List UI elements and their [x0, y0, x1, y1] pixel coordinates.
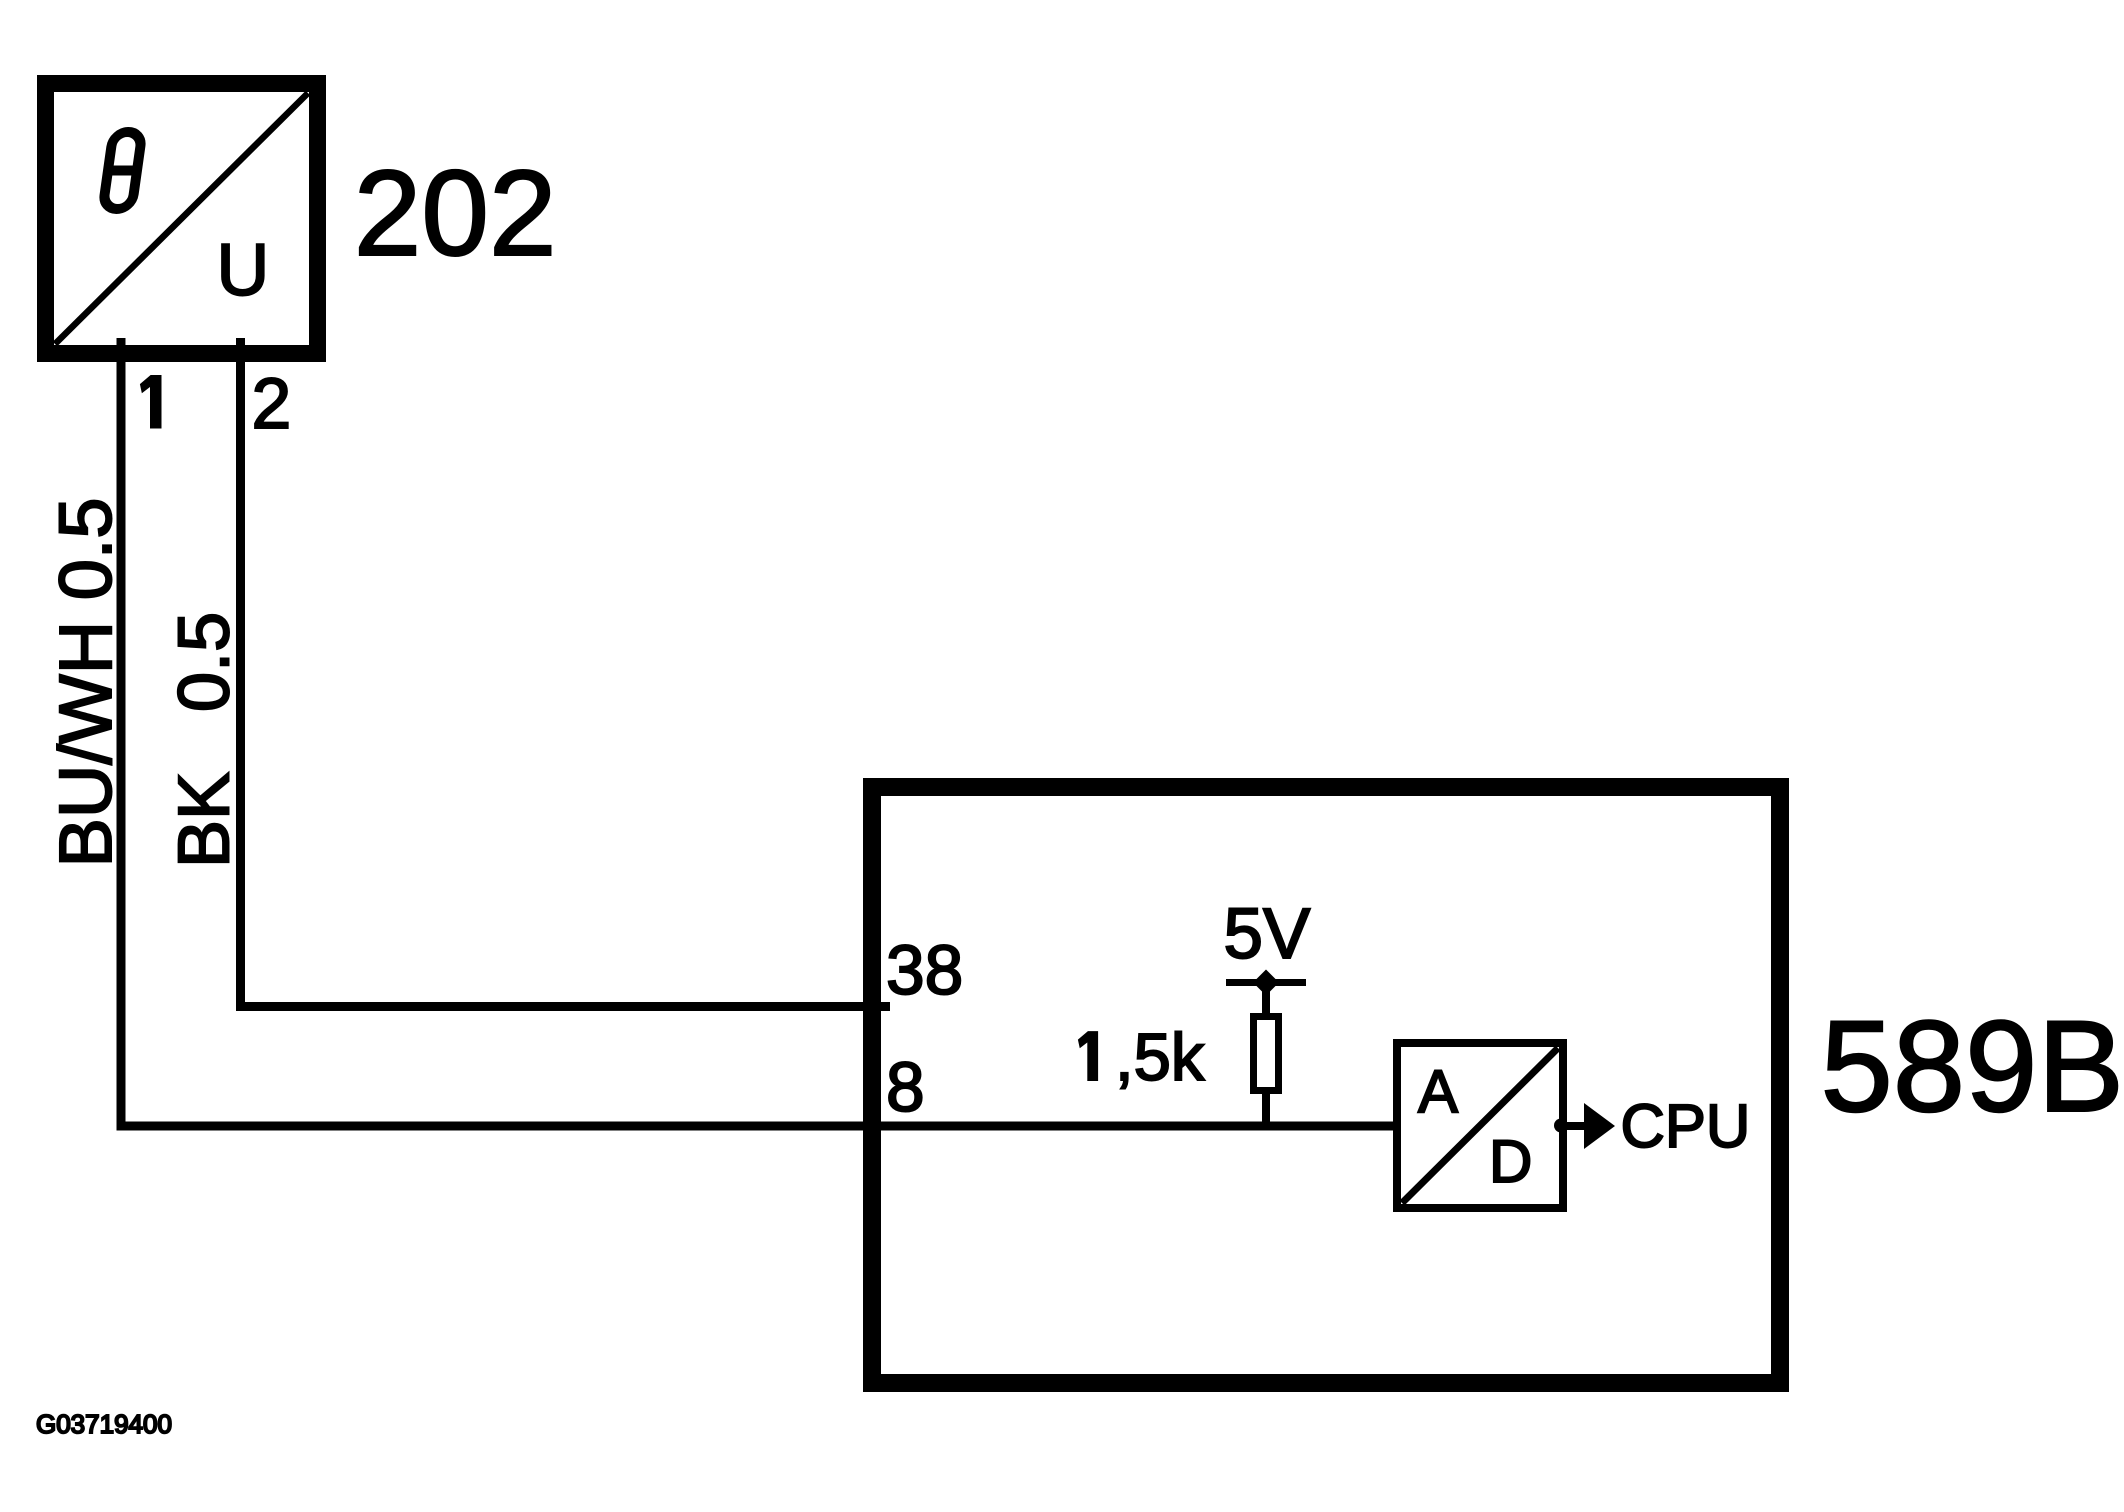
junction dot at A/D output — [1554, 1119, 1568, 1133]
svg-text:8: 8 — [886, 1048, 925, 1126]
5V supply diamond — [1253, 970, 1279, 996]
wire BK from pin 2 to pin 38 — [241, 338, 891, 1007]
connector box 202 (temperature sensor symbol) — [46, 84, 318, 354]
svg-text:BU/WH 0.5: BU/WH 0.5 — [44, 497, 127, 867]
svg-text:,5k: ,5k — [1115, 1020, 1205, 1095]
svg-text:G03719400: G03719400 — [36, 1409, 172, 1439]
svg-text:2: 2 — [252, 364, 292, 444]
ECU box 589B — [872, 787, 1780, 1383]
svg-text:38: 38 — [886, 931, 963, 1009]
svg-text:202: 202 — [354, 145, 557, 281]
arrow head — [1584, 1103, 1615, 1149]
wire BU/WH from pin 1 to pin 8 — [121, 338, 1397, 1126]
pin 1 label — [141, 376, 161, 428]
diagonal of box 202 — [55, 93, 308, 344]
5V supply bar — [1226, 979, 1306, 986]
resistor 1,5k body — [1254, 1017, 1279, 1091]
svg-text:5V: 5V — [1224, 895, 1311, 974]
resistor lower lead — [1262, 1090, 1270, 1126]
svg-text:A: A — [1418, 1058, 1458, 1125]
svg-text:BK 0.5: BK 0.5 — [165, 612, 245, 868]
svg-text:U: U — [217, 230, 270, 311]
svg-text:D: D — [1489, 1128, 1532, 1195]
theta symbol — [101, 132, 144, 209]
arrow shaft to CPU — [1563, 1122, 1586, 1130]
svg-text:CPU: CPU — [1621, 1092, 1751, 1161]
A/D diagonal — [1402, 1048, 1558, 1203]
stub from 5V to resistor — [1262, 982, 1270, 1016]
svg-text:589B: 589B — [1821, 993, 2124, 1139]
resistor value: digit 1 — [1079, 1032, 1097, 1080]
A/D converter box — [1397, 1043, 1563, 1208]
